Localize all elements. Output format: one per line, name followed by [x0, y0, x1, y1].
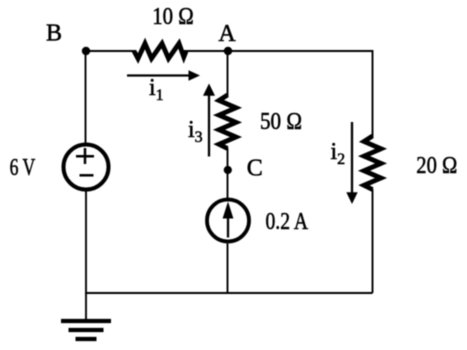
voltage source 6V (circle with plus and minus) [64, 145, 109, 190]
wire: node A to top-right corner [228, 50, 373, 52]
node C junction dot [224, 166, 232, 174]
current arrow i2 [346, 122, 357, 204]
resistor 20Ω (right, vertical zigzag) [364, 136, 381, 190]
wire: resistor 20Ω to bottom-right corner [372, 189, 374, 293]
wire: resistor 10Ω to node A [184, 50, 228, 52]
svg-text:6 V: 6 V [10, 155, 36, 181]
current arrow i3 [203, 84, 215, 157]
svg-text:B: B [46, 20, 62, 46]
wire: top-right corner down to resistor 20Ω [372, 50, 374, 137]
svg-text:C: C [247, 155, 263, 181]
wire: node B to resistor 10Ω (top left segment) [86, 50, 136, 52]
node B junction dot [82, 47, 90, 55]
node A junction dot [224, 47, 232, 55]
svg-text:0.2 A: 0.2 A [266, 209, 309, 235]
svg-text:10 Ω: 10 Ω [152, 4, 194, 30]
wire: node B down to voltage source [85, 51, 87, 145]
bottom wire [85, 292, 373, 294]
current arrow i1 [127, 70, 200, 80]
wire: voltage source down to bottom wire and ground [85, 190, 87, 322]
current source 0.2A (circle with up arrow) [207, 200, 249, 242]
wire: current source to bottom wire [227, 244, 229, 294]
resistor 10Ω (top, horizontal zigzag) [134, 44, 186, 59]
svg-text:A: A [218, 21, 236, 47]
wire: node A down to resistor 50Ω [227, 51, 229, 96]
resistor 50Ω (middle, vertical zigzag) [219, 95, 236, 149]
ground symbol [61, 321, 111, 339]
svg-text:20 Ω: 20 Ω [416, 153, 457, 179]
svg-text:50 Ω: 50 Ω [260, 109, 302, 135]
wire: resistor 50Ω to node C [227, 148, 229, 198]
